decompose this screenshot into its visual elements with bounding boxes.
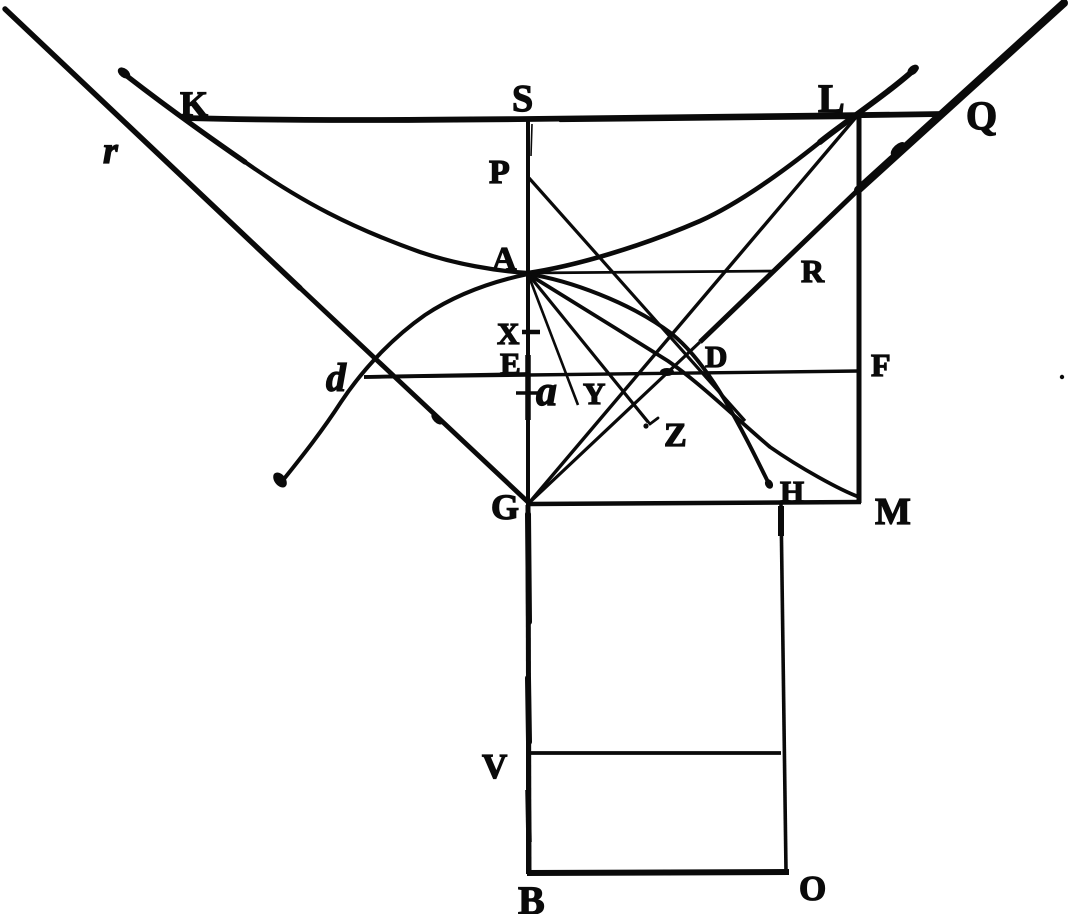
- svg-text:B: B: [518, 878, 545, 914]
- svg-text:M: M: [875, 491, 911, 533]
- svg-text:A: A: [492, 241, 517, 278]
- svg-text:P: P: [489, 154, 510, 191]
- tick X: [522, 330, 540, 335]
- svg-text:S: S: [512, 78, 533, 120]
- curve K hyperbola left branch to A: [245, 162, 528, 273]
- svg-text:D: D: [705, 339, 727, 374]
- wire SB thick patch near E: [525, 355, 531, 420]
- short line A steep: [528, 274, 578, 405]
- line GQ long diagonal lower thin part: [529, 342, 700, 503]
- svg-text:Y: Y: [583, 376, 605, 411]
- line V horizontal: [528, 751, 781, 755]
- svg-text:r: r: [103, 130, 119, 172]
- long line T1 from top-left corner to G: [5, 9, 300, 288]
- tick a: [516, 391, 539, 395]
- curve A to H quadrant: [528, 274, 770, 486]
- svg-text:V: V: [482, 747, 507, 786]
- wire GB thick patch 1: [528, 514, 529, 622]
- svg-text:G: G: [491, 487, 519, 527]
- line KSLQ dark patch: [560, 118, 850, 121]
- wire GB thick patch 2: [528, 678, 529, 742]
- wart on T1: [429, 412, 444, 427]
- svg-text:L: L: [818, 76, 845, 121]
- svg-text:d: d: [326, 355, 347, 400]
- line BO bottom horizontal: [527, 872, 789, 873]
- curve AL right branch: [528, 142, 820, 273]
- arc A to d lower-left: [280, 274, 528, 484]
- blob curve K start: [116, 65, 133, 81]
- svg-text:F: F: [871, 347, 891, 383]
- line P diagonal: [529, 178, 745, 421]
- blob arc Ad end: [270, 470, 289, 490]
- line GM horizontal: [529, 502, 861, 504]
- svg-text:O: O: [799, 869, 826, 908]
- speckle dot right edge: [1060, 375, 1064, 379]
- wire GB vertical thicker lower part: [528, 505, 529, 874]
- wire HO vertical lower right: [781, 504, 786, 871]
- line GQ middle part: [700, 190, 858, 342]
- svg-text:a: a: [536, 369, 557, 415]
- line Ed left overlay: [364, 374, 528, 377]
- curve K hyperbola left branch thick start: [123, 73, 245, 162]
- svg-text:Q: Q: [966, 93, 997, 138]
- blob curve AH end: [763, 478, 774, 490]
- hook blob: [643, 423, 648, 428]
- wire LFM vertical: [857, 115, 862, 503]
- wire GB thick patch 3: [528, 790, 529, 842]
- line EF horizontal: [364, 371, 859, 377]
- line GQ thick top-right part: [858, 3, 1064, 190]
- svg-text:E: E: [500, 346, 521, 381]
- line AR horizontal: [528, 271, 776, 273]
- curve AL right branch thick end past L: [820, 68, 916, 142]
- svg-text:R: R: [801, 253, 825, 289]
- wire SB vertical: [526, 118, 530, 874]
- svg-text:K: K: [180, 84, 208, 124]
- scratch beside S vertical: [531, 124, 532, 156]
- wart on GQ line upper: [888, 140, 907, 159]
- tick H top of lower right vertical: [778, 506, 784, 536]
- svg-text:Z: Z: [664, 417, 687, 454]
- svg-text:H: H: [780, 474, 804, 509]
- hook near Z: [640, 412, 658, 424]
- blob curve AL end: [905, 63, 920, 78]
- line KSLQ top horizontal: [184, 114, 941, 120]
- line A to Y to Z hook: [528, 274, 648, 422]
- line GL: [529, 116, 857, 503]
- junction blob on EF line: [660, 368, 674, 376]
- curve A to M: [528, 274, 859, 497]
